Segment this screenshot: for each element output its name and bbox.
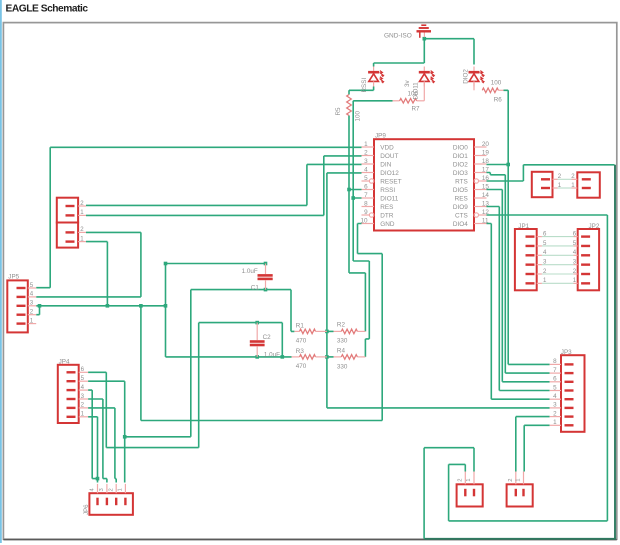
wire net R2 left stub bbox=[327, 330, 334, 332]
pin JP5.1 bbox=[17, 322, 26, 324]
svg-text:12: 12 bbox=[482, 209, 490, 216]
svg-text:DIO4: DIO4 bbox=[453, 221, 468, 228]
LED DIO11 indicator bbox=[423, 67, 425, 71]
svg-text:1: 1 bbox=[516, 478, 522, 481]
pin JP9.18 DIO2 stub bbox=[474, 163, 487, 165]
svg-text:6: 6 bbox=[553, 376, 557, 383]
svg-text:R3: R3 bbox=[296, 348, 305, 355]
svg-text:JP2: JP2 bbox=[589, 223, 600, 230]
junction aux conn pin1 bbox=[106, 304, 110, 308]
junction R3 R4 DIO12 bbox=[325, 355, 329, 359]
wire net RTS along right frame edge bbox=[614, 165, 616, 539]
pin JP1.3 bbox=[526, 263, 535, 265]
wire net DOUT connector to JP9.2 bbox=[86, 156, 362, 216]
svg-text:15: 15 bbox=[482, 183, 490, 190]
wire net JP4.6 C2 top bbox=[88, 323, 282, 448]
svg-text:C2: C2 bbox=[263, 334, 272, 341]
svg-text:3: 3 bbox=[553, 402, 557, 409]
wire net DIO11 R7 JP9.7 R4 bbox=[353, 101, 392, 357]
capacitor C2 bbox=[256, 323, 258, 341]
svg-text:1: 1 bbox=[466, 478, 472, 481]
junction R5 JP9.6 bbox=[347, 188, 351, 192]
wire net DIO2 R6 JP9.18 JP3.8 bbox=[487, 90, 550, 364]
wire net JP4.5 C1 R1 JP6.1 bbox=[88, 290, 294, 483]
pin JP5.2 bbox=[17, 314, 26, 316]
connector JP4 outline bbox=[58, 365, 79, 423]
connector JP1 outline bbox=[515, 229, 537, 290]
pin JP9.19 DIO1 stub bbox=[474, 155, 487, 157]
wire net GND JP9.10 JP5.2 JP5.3 C1 R3 bbox=[36, 224, 382, 421]
junction C2 bottom bbox=[255, 355, 259, 359]
pin JP9.16 RTS stub bbox=[474, 179, 478, 183]
pin JP4.6 bbox=[67, 371, 76, 373]
pin JP4.3 bbox=[67, 398, 76, 400]
pin JP1.6 bbox=[526, 235, 535, 237]
junction R7 JP9.7 bbox=[351, 196, 355, 200]
pin JP1.4 bbox=[526, 254, 535, 256]
connector isolated header left outline bbox=[532, 172, 553, 197]
junction GND corner C1 bbox=[164, 262, 168, 266]
svg-text:GND: GND bbox=[380, 221, 395, 228]
pin output header left.2 bbox=[464, 489, 466, 497]
connector JP9 outline bbox=[374, 139, 474, 230]
svg-text:EAGLE Schematic: EAGLE Schematic bbox=[6, 3, 89, 14]
pin JP2.5 bbox=[581, 245, 590, 247]
svg-text:JP6: JP6 bbox=[83, 504, 90, 515]
svg-text:GND-ISO: GND-ISO bbox=[384, 33, 412, 40]
pin JP1.2 bbox=[526, 273, 535, 275]
pin JP4.1 bbox=[67, 416, 76, 418]
connector output header left outline bbox=[457, 484, 483, 506]
svg-text:330: 330 bbox=[337, 338, 348, 345]
svg-text:2: 2 bbox=[364, 149, 368, 156]
connector JP2 outline bbox=[578, 229, 599, 290]
resistor R2 bbox=[334, 330, 342, 332]
pin JP3.7 bbox=[565, 372, 574, 374]
junction C1 top bbox=[264, 262, 268, 266]
junction GND JP5 line bbox=[139, 304, 143, 308]
capacitor C1 bbox=[265, 264, 267, 275]
wire link JP1.2 to JP2.2 bbox=[542, 273, 574, 275]
pin JP1.1 bbox=[526, 282, 535, 284]
pin JP3.8 bbox=[565, 363, 574, 365]
wire net JP4.4 JP4.1 to JP6.4 bbox=[88, 390, 97, 482]
pin JP5.3 bbox=[17, 305, 26, 307]
svg-text:100: 100 bbox=[355, 110, 362, 121]
pin aux header upper.2 bbox=[66, 205, 75, 207]
ground GND-ISO symbol bbox=[417, 30, 432, 32]
wire net GND-ISO led rail bbox=[374, 39, 474, 67]
junction GND-ISO rail bbox=[423, 37, 427, 41]
resistor R5 bbox=[347, 95, 352, 116]
wire net RTS JP9.16 right edge loop bbox=[487, 165, 615, 181]
svg-text:100: 100 bbox=[491, 80, 502, 87]
junction JP5 pin2 pin3 bbox=[38, 304, 42, 308]
pin isolated header left.2 bbox=[541, 178, 550, 180]
pin JP4.5 bbox=[67, 380, 76, 382]
connector JP5 outline bbox=[7, 280, 28, 332]
pin JP2.2 bbox=[581, 273, 590, 275]
junction C2 top bbox=[255, 321, 259, 325]
svg-text:C1: C1 bbox=[251, 285, 260, 292]
wire net JP4.3 to JP6.3 bbox=[88, 399, 107, 483]
svg-text:5: 5 bbox=[364, 175, 368, 182]
svg-text:DIO0: DIO0 bbox=[453, 144, 468, 151]
pin isolated header right.2 bbox=[582, 178, 591, 180]
svg-text:1: 1 bbox=[80, 209, 84, 216]
svg-text:16: 16 bbox=[482, 175, 490, 182]
wire net CTS JP9.12 to bottom connector pin2 bbox=[449, 215, 608, 521]
wire link JP1.1 to JP2.1 bbox=[542, 282, 574, 284]
pin JP9.15 DIO5 stub bbox=[474, 189, 487, 191]
svg-text:17: 17 bbox=[482, 166, 490, 173]
wire net DIO12 JP9.4 to R1 R3 JP3.3 bbox=[327, 173, 550, 408]
wire link JP1.6 to JP2.6 bbox=[542, 236, 574, 238]
svg-text:DIO5: DIO5 bbox=[453, 187, 468, 194]
pin JP9.13 DIO9 stub bbox=[474, 206, 487, 208]
svg-text:DIO9: DIO9 bbox=[453, 204, 468, 211]
svg-text:RESET: RESET bbox=[380, 178, 401, 185]
wire link top connector pin1 bbox=[558, 187, 572, 189]
resistor R4 bbox=[334, 356, 342, 358]
wire net R4 left stub bbox=[327, 356, 334, 358]
pin JP4.2 bbox=[67, 407, 76, 409]
svg-text:9: 9 bbox=[364, 209, 368, 216]
svg-text:DOUT: DOUT bbox=[380, 153, 398, 160]
wire net DIN connector to JP9.3 bbox=[86, 164, 362, 205]
wire link top connector pin2 bbox=[558, 178, 572, 180]
pin JP9.2 DOUT stub bbox=[362, 155, 375, 157]
pin isolated header left.1 bbox=[541, 187, 550, 189]
junction C1 bottom bbox=[264, 288, 268, 292]
pin output header right.1 bbox=[522, 489, 524, 497]
svg-text:470: 470 bbox=[296, 338, 307, 345]
resistor R3 bbox=[292, 356, 300, 358]
LED RSSI bbox=[373, 67, 375, 71]
connector output header right outline bbox=[507, 484, 533, 506]
svg-text:3: 3 bbox=[364, 158, 368, 165]
pin isolated header right.1 bbox=[582, 187, 591, 189]
pin JP3.3 bbox=[565, 407, 574, 409]
pin JP5.5 bbox=[17, 287, 26, 289]
svg-text:JP3: JP3 bbox=[561, 349, 572, 356]
svg-text:1: 1 bbox=[80, 235, 84, 242]
wire net DIO3 JP9.17 to JP3.7 bbox=[487, 173, 550, 374]
pin JP6.1 bbox=[124, 498, 126, 506]
svg-text:10: 10 bbox=[361, 217, 369, 224]
svg-text:6: 6 bbox=[364, 183, 368, 190]
pin JP2.6 bbox=[581, 235, 590, 237]
connector aux header upper outline bbox=[57, 198, 78, 223]
svg-text:1: 1 bbox=[118, 488, 124, 491]
svg-text:JP4: JP4 bbox=[59, 359, 70, 366]
svg-text:2: 2 bbox=[108, 488, 114, 491]
resistor R1 bbox=[294, 330, 299, 332]
pin JP9.20 DIO0 stub bbox=[474, 146, 487, 148]
svg-text:DIO11: DIO11 bbox=[412, 82, 419, 100]
svg-text:11: 11 bbox=[482, 217, 489, 224]
pin JP5.4 bbox=[17, 296, 26, 298]
svg-text:2: 2 bbox=[80, 226, 84, 233]
svg-text:330: 330 bbox=[337, 363, 348, 370]
svg-text:5: 5 bbox=[553, 384, 557, 391]
pin JP4.4 bbox=[67, 389, 76, 391]
svg-text:RES: RES bbox=[380, 204, 393, 211]
pin aux header lower.2 bbox=[66, 231, 75, 233]
svg-text:13: 13 bbox=[482, 200, 490, 207]
pin JP9.3 DIN stub bbox=[362, 163, 375, 165]
svg-text:3v: 3v bbox=[404, 79, 411, 87]
junction R1 R2 DIO12 bbox=[325, 330, 329, 334]
wire net VDD JP5.5 to JP9.1 bbox=[36, 147, 361, 287]
pin JP9.8 RES stub bbox=[362, 206, 375, 208]
pin JP3.6 bbox=[565, 381, 574, 383]
svg-text:20: 20 bbox=[482, 141, 490, 148]
svg-text:VDD: VDD bbox=[380, 144, 394, 151]
svg-text:R6: R6 bbox=[494, 97, 503, 104]
connector isolated header right outline bbox=[577, 172, 600, 197]
pin JP9.7 DIO11 stub bbox=[362, 197, 375, 199]
pin JP1.5 bbox=[526, 245, 535, 247]
svg-text:2: 2 bbox=[80, 200, 84, 207]
svg-text:1.0uF: 1.0uF bbox=[242, 268, 258, 275]
svg-text:14: 14 bbox=[482, 192, 490, 199]
pin JP3.2 bbox=[565, 415, 574, 417]
svg-text:DIO11: DIO11 bbox=[380, 195, 398, 202]
svg-text:DTR: DTR bbox=[380, 212, 394, 219]
connector JP6 outline bbox=[89, 493, 132, 515]
svg-text:8: 8 bbox=[553, 358, 557, 365]
junction R6 JP9.18 bbox=[506, 163, 510, 167]
svg-text:R4: R4 bbox=[337, 347, 346, 354]
svg-text:RSSI: RSSI bbox=[380, 187, 395, 194]
junction R3 feed bbox=[281, 355, 285, 359]
svg-text:DIO2: DIO2 bbox=[453, 161, 468, 168]
svg-text:4: 4 bbox=[553, 393, 557, 400]
wire net RTS to bottom connector pin1 bbox=[424, 448, 474, 539]
svg-text:1: 1 bbox=[553, 419, 557, 426]
svg-text:R7: R7 bbox=[412, 106, 421, 113]
pin output header left.1 bbox=[473, 489, 475, 497]
pin JP9.11 DIO4 stub bbox=[474, 223, 487, 225]
svg-text:1: 1 bbox=[364, 141, 368, 148]
pin JP9.14 RES stub bbox=[474, 197, 487, 199]
resistor R7 bbox=[393, 100, 400, 102]
svg-text:DIN: DIN bbox=[380, 161, 391, 168]
svg-text:DIO2: DIO2 bbox=[463, 69, 470, 84]
svg-text:R1: R1 bbox=[296, 323, 305, 330]
wire net RTS along bottom frame edge bbox=[424, 538, 616, 540]
pin JP9.1 VDD stub bbox=[362, 146, 375, 148]
svg-text:JP5: JP5 bbox=[8, 274, 19, 281]
pin JP3.1 bbox=[565, 424, 574, 426]
svg-text:470: 470 bbox=[296, 363, 307, 370]
wire net DIO4 JP9.11 to JP3.4 bbox=[487, 224, 550, 400]
svg-text:1.0uF: 1.0uF bbox=[264, 352, 280, 359]
wire net RSSI R5 JP9.6 R2 bbox=[349, 87, 374, 332]
svg-text:JP1: JP1 bbox=[518, 223, 529, 230]
svg-text:8: 8 bbox=[364, 200, 368, 207]
svg-text:4: 4 bbox=[364, 166, 368, 173]
pin JP9.5 RESET stub bbox=[362, 180, 370, 182]
pin JP2.4 bbox=[581, 254, 590, 256]
svg-text:DIO3: DIO3 bbox=[453, 170, 468, 177]
svg-text:R5: R5 bbox=[335, 107, 342, 116]
pin JP6.4 bbox=[96, 498, 98, 506]
svg-text:RES: RES bbox=[455, 195, 468, 202]
svg-text:CTS: CTS bbox=[455, 212, 468, 219]
svg-text:7: 7 bbox=[364, 192, 368, 199]
svg-text:2: 2 bbox=[553, 410, 557, 417]
svg-text:19: 19 bbox=[482, 149, 490, 156]
wire net JP3.2 to bottom right connector pin2 bbox=[516, 417, 550, 472]
wire net DIO5 JP9.15 to JP3.6 bbox=[487, 190, 550, 382]
svg-text:R2: R2 bbox=[337, 322, 346, 329]
pin JP9.12 CTS stub bbox=[474, 213, 478, 217]
junction JP4.5 loop bbox=[123, 435, 127, 439]
pin aux header upper.1 bbox=[66, 214, 75, 216]
wire net DIO9 JP9.13 to JP3.5 bbox=[487, 207, 550, 391]
pin JP6.2 bbox=[115, 498, 117, 506]
pin JP9.9 DTR stub bbox=[362, 214, 370, 216]
wire net JP4.2 to JP6.2 bbox=[88, 408, 116, 483]
junction GND mid bbox=[164, 304, 168, 308]
connector aux header lower outline bbox=[57, 223, 78, 248]
svg-text:7: 7 bbox=[553, 367, 557, 374]
pin aux header lower.1 bbox=[66, 240, 75, 242]
junction JP4.4 JP4.1 bbox=[96, 477, 100, 481]
svg-text:2: 2 bbox=[457, 478, 463, 481]
schematic frame bottom darker edge bbox=[3, 539, 616, 541]
pin JP3.5 bbox=[565, 389, 574, 391]
pin JP3.4 bbox=[565, 398, 574, 400]
svg-text:JP9: JP9 bbox=[375, 132, 386, 139]
wire net JP3.1 to bottom right connector pin1 bbox=[524, 425, 549, 471]
connector JP3 outline bbox=[561, 355, 585, 432]
pin JP9.4 DIO12 stub bbox=[362, 172, 375, 174]
pin JP2.1 bbox=[581, 282, 590, 284]
pin output header right.2 bbox=[515, 489, 517, 497]
svg-text:DIO1: DIO1 bbox=[453, 153, 468, 160]
svg-text:DIO12: DIO12 bbox=[380, 170, 399, 177]
pin JP9.6 RSSI stub bbox=[362, 189, 375, 191]
wire link JP1.3 to JP2.3 bbox=[542, 264, 574, 266]
svg-text:18: 18 bbox=[482, 158, 490, 165]
LED DIO2 indicator bbox=[473, 67, 475, 71]
pin JP9.10 GND stub bbox=[362, 223, 375, 225]
wire net aux lower pin2 to JP5.4 bbox=[36, 232, 141, 297]
pin JP2.3 bbox=[581, 263, 590, 265]
wire link JP1.5 to JP2.5 bbox=[542, 245, 574, 247]
resistor R6 bbox=[482, 88, 498, 93]
pin JP6.3 bbox=[106, 498, 108, 506]
page left blue strip bbox=[0, 0, 2, 543]
svg-text:2: 2 bbox=[508, 478, 514, 481]
pin JP9.17 DIO3 stub bbox=[474, 172, 487, 174]
svg-text:RSSI: RSSI bbox=[361, 78, 368, 93]
svg-text:RTS: RTS bbox=[455, 178, 468, 185]
wire link JP1.4 to JP2.4 bbox=[542, 254, 574, 256]
